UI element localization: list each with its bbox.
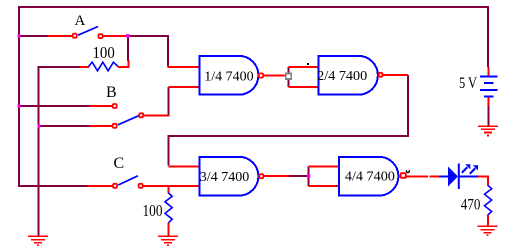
- svg-text:3/4 7400: 3/4 7400: [200, 170, 249, 185]
- terminal switch B pole: [139, 113, 143, 117]
- junction left bus at A row: [18, 35, 21, 38]
- svg-text:A: A: [75, 13, 86, 29]
- lead gate2 output: [383, 74, 408, 76]
- wire gate1 output to gate2 inputs vertical: [288, 67, 290, 87]
- ground battery: [478, 126, 498, 135]
- lead R1 right: [118, 60, 129, 67]
- lead switch C left: [88, 185, 113, 187]
- wire junction A down to R1: [127, 37, 129, 61]
- lead switch A left: [48, 35, 73, 37]
- connector square node between U1A and U1B: [286, 73, 292, 79]
- lead R2 bottom: [487, 215, 489, 226]
- lead gate1 upper input: [168, 66, 201, 68]
- svg-text:4/4 7400: 4/4 7400: [345, 170, 395, 185]
- switch C blade: [118, 176, 138, 185]
- lead battery positive: [488, 67, 490, 77]
- NAND gate U1B body: [319, 56, 378, 95]
- gate U1C output bubble: [259, 174, 263, 178]
- label dot near gate2 input: [307, 63, 309, 65]
- lead gate2 lower input: [289, 86, 319, 88]
- terminal switch A right: [99, 34, 103, 38]
- wire B pole vertical to gate1 lower input: [168, 87, 170, 115]
- lead gate4 lower input: [309, 185, 340, 187]
- switch B blade: [118, 116, 139, 125]
- svg-text:B: B: [106, 84, 117, 101]
- svg-text:470: 470: [461, 197, 481, 214]
- NAND gate U1C body: [200, 157, 259, 196]
- ground R2: [478, 226, 498, 235]
- terminal switch B lower left: [113, 124, 117, 128]
- lead switch A right to junction: [103, 35, 128, 37]
- battery V1 plates: [480, 77, 498, 97]
- wire junction A to gate1 upper input: [128, 36, 168, 67]
- lead gate2 upper input: [289, 66, 319, 68]
- lead gate3 output: [264, 175, 289, 177]
- NAND gate U1D body: [339, 157, 398, 196]
- lead LED cathode to R2: [478, 177, 488, 187]
- ground left bus: [28, 236, 48, 245]
- resistor R2 470 zigzag: [485, 185, 492, 214]
- switch A blade: [78, 27, 98, 36]
- svg-text:C: C: [114, 155, 125, 172]
- resistor R1 100 zigzag: [89, 62, 119, 71]
- junction gate3 output node: [307, 174, 310, 177]
- wire feedback gate2 output to gate3 upper input: [169, 75, 409, 166]
- lead gate4 upper input: [309, 166, 340, 168]
- gate U1B output bubble: [379, 73, 383, 77]
- terminal switch C pole: [139, 184, 143, 188]
- NAND gate U1A body: [200, 56, 259, 95]
- wire top bus: [19, 6, 489, 8]
- lead LED anode: [430, 176, 440, 178]
- wire R1 left to ground bus: [39, 66, 80, 68]
- wire right bus vertical to battery: [487, 6, 489, 67]
- lead gate4 output: [407, 176, 429, 178]
- lead R3 bottom: [168, 223, 170, 236]
- gate U1D output bubble: [401, 173, 406, 178]
- lead gate3 upper input feedback: [169, 166, 201, 168]
- svg-text:1/4 7400: 1/4 7400: [204, 69, 253, 84]
- wire battery negative to ground: [488, 106, 490, 126]
- lead gate1 output: [264, 75, 286, 77]
- lead switch B upper left: [90, 105, 113, 107]
- lead R1 left: [80, 66, 89, 68]
- wire gate3-gate4 junction vertical: [308, 167, 310, 187]
- svg-text:2/4 7400: 2/4 7400: [317, 69, 367, 84]
- lead gate1 lower input: [169, 86, 201, 88]
- lead battery negative: [488, 97, 490, 107]
- terminal switch B upper left: [113, 104, 117, 108]
- terminal switch C left: [113, 184, 117, 188]
- lead switch B pole to vertical: [144, 114, 170, 116]
- label mark near gate4 output: [406, 170, 409, 172]
- wire ground bus vertical: [38, 66, 40, 236]
- wire left bus vertical: [18, 6, 20, 187]
- svg-text:100: 100: [143, 201, 163, 220]
- junction ground bus at B lower row: [37, 124, 40, 127]
- wire switch C row dark: [18, 185, 88, 187]
- wire switch B lower row dark: [39, 125, 90, 127]
- junction left bus at B row: [18, 105, 21, 108]
- wire gate3 output mid segment: [289, 175, 307, 177]
- ground R3: [158, 236, 178, 245]
- lead R3 top: [168, 186, 170, 194]
- svg-text:5 V: 5 V: [459, 75, 477, 92]
- resistor R3 100 zigzag: [165, 193, 172, 223]
- junction A: [126, 34, 130, 38]
- LED D1: [439, 164, 478, 190]
- wire switch A row dark: [19, 35, 48, 37]
- lead switch B lower left: [90, 125, 113, 127]
- gate U1A output bubble: [259, 73, 263, 77]
- lead switch C pole to gate3 lower input: [144, 185, 201, 187]
- terminal switch A left: [73, 34, 77, 38]
- wire switch B upper row dark: [19, 105, 90, 107]
- svg-text:100: 100: [93, 43, 115, 62]
